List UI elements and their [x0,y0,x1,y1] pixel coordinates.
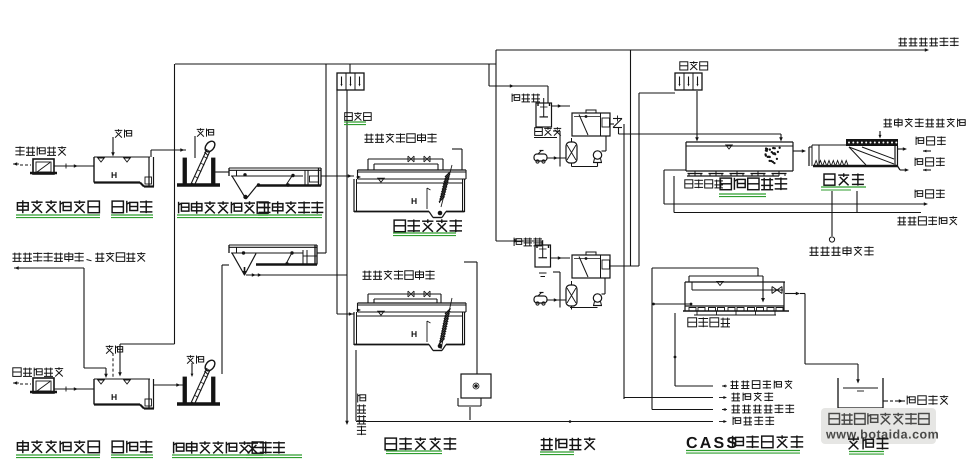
svg-text:H: H [111,170,117,180]
svg-text:H: H [411,329,417,339]
svg-text:H: H [411,196,417,206]
svg-text:H: H [111,392,117,402]
svg-text:CASS: CASS [686,435,739,452]
